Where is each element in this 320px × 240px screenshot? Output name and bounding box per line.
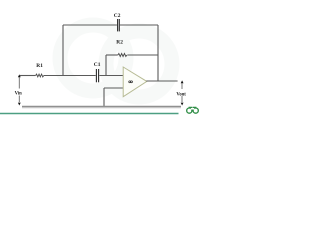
wire top C2 row left segment — [63, 24, 117, 26]
svg-text:C2: C2 — [114, 13, 121, 19]
svg-text:Vout: Vout — [176, 92, 186, 97]
node Vout terminal (arrow up, stem, arrow down) — [181, 80, 184, 105]
wire R2 row left segment — [106, 54, 118, 56]
op-amp U1 — [123, 67, 147, 97]
capacitor C1 — [96, 69, 98, 82]
svg-text:C1: C1 — [94, 62, 101, 68]
background watermark (decorative) — [60, 25, 172, 97]
green divider line — [0, 113, 179, 115]
wire ground rail — [22, 106, 181, 108]
wire non-inverting input row — [104, 87, 123, 89]
wire R2 left vertical — [105, 55, 107, 76]
wire left vertical (node A to top row) — [62, 25, 64, 76]
wire top C2 row right segment — [120, 24, 158, 26]
svg-text:R1: R1 — [36, 63, 43, 69]
svg-text:Vin: Vin — [15, 91, 23, 96]
svg-text:R2: R2 — [116, 40, 123, 46]
wire right vertical (top row to output) — [157, 25, 159, 81]
resistor R2 — [118, 54, 127, 57]
capacitor C2 — [118, 19, 120, 31]
wire non-inverting ground vertical — [103, 88, 105, 107]
resistor R1 — [36, 74, 44, 77]
wire C1 to op-amp inverting input — [99, 75, 123, 77]
wire input row (Vin to R1) — [20, 75, 36, 77]
wire R2 row right segment — [127, 54, 158, 56]
GeeksforGeeks logo — [187, 107, 199, 113]
node Vin terminal (arrow up, stem, arrow down) — [18, 74, 21, 105]
wire output row — [146, 80, 177, 82]
wire R1 to C1 — [44, 75, 96, 77]
